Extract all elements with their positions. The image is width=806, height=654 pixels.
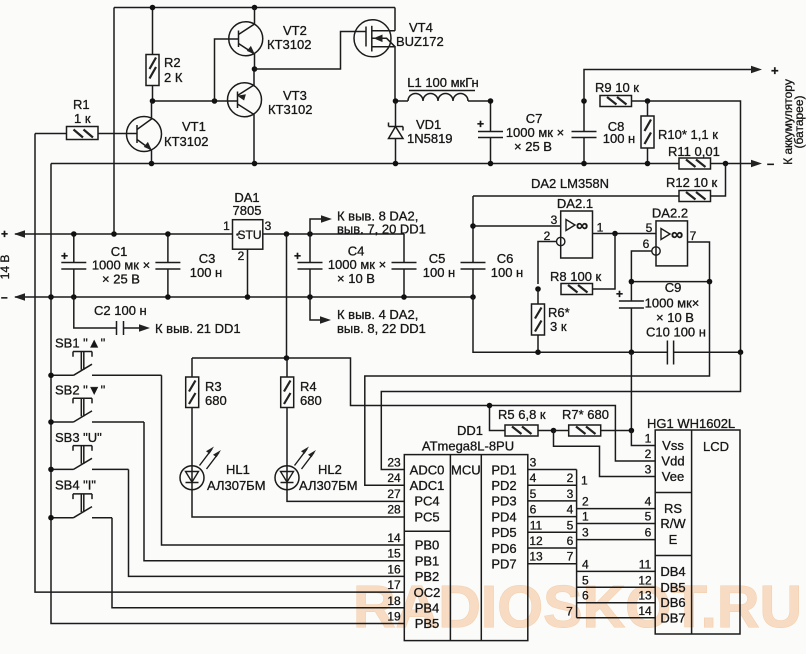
svg-text:28: 28	[387, 503, 401, 517]
diode VD1	[389, 101, 453, 164]
node C8 top	[581, 98, 587, 104]
wire SB2 to PB1	[144, 422, 404, 561]
transistor VT2	[229, 8, 312, 70]
pin number 12	[529, 534, 543, 548]
svg-text:HL2: HL2	[318, 462, 342, 477]
wire bus to E	[577, 539, 656, 541]
svg-text:ADC1: ADC1	[410, 478, 445, 493]
wire PD4 stub	[528, 516, 577, 518]
pin number 17	[387, 578, 401, 592]
label DA2	[531, 176, 609, 191]
node C9 bottom	[629, 349, 635, 355]
svg-text:× 10 В: × 10 В	[656, 310, 694, 325]
svg-text:6: 6	[530, 503, 537, 517]
bus wire number 5 left	[567, 518, 574, 532]
wire bus to DB6	[577, 602, 656, 604]
pin number 28	[387, 503, 401, 517]
node C6 bottom ground	[470, 294, 476, 300]
svg-text:R7* 680: R7* 680	[562, 407, 609, 422]
pin number 6 HG1	[645, 526, 652, 540]
node C1 top	[71, 231, 77, 237]
wire gate link	[255, 32, 367, 70]
bus wire number 5 right	[582, 573, 589, 587]
svg-text:STU: STU	[238, 228, 262, 242]
capacitor C7	[477, 101, 564, 164]
svg-text:12: 12	[529, 534, 543, 548]
bus wire number 1 right	[582, 510, 589, 524]
svg-text:PB0: PB0	[415, 538, 440, 553]
wire HL2 to PC4	[287, 490, 404, 502]
node C4 top	[307, 231, 313, 237]
svg-text:DA2 LM358N: DA2 LM358N	[531, 176, 609, 191]
svg-text:SB3 "U": SB3 "U"	[55, 430, 102, 445]
resistor R5	[498, 407, 554, 436]
svg-text:5: 5	[567, 518, 574, 532]
svg-text:HG1 WH1602L: HG1 WH1602L	[647, 416, 735, 431]
wire ADC1 long wire from DA2.2 output	[365, 282, 710, 486]
svg-text:1: 1	[645, 432, 652, 446]
svg-text:PB1: PB1	[415, 553, 440, 568]
node C1 bottom	[71, 294, 77, 300]
svg-text:1: 1	[597, 221, 604, 235]
svg-text:C10 100 н: C10 100 н	[646, 325, 706, 340]
svg-text:5: 5	[645, 510, 652, 524]
node sense line bottom	[738, 349, 744, 355]
svg-text:SB1 "▲": SB1 "▲"	[55, 336, 106, 351]
svg-text:+: +	[616, 287, 623, 301]
node LED rail supply	[284, 355, 290, 361]
svg-text:SB4 "I": SB4 "I"	[55, 478, 96, 493]
wire left vertical from top rail to +14V rail	[113, 8, 115, 235]
pin number 11	[530, 518, 543, 532]
svg-text:+: +	[1, 227, 8, 241]
resistor R10	[641, 101, 718, 164]
node base junction	[212, 98, 218, 104]
svg-text:VT3: VT3	[283, 88, 307, 103]
node C3 top	[165, 231, 171, 237]
bus wire number 6 left	[567, 534, 574, 548]
svg-text:1000 мк ×: 1000 мк ×	[328, 257, 386, 272]
svg-text:3: 3	[551, 213, 558, 227]
label plus input	[1, 227, 8, 241]
wire bottom common of top section	[51, 163, 679, 165]
node C7 top	[488, 98, 494, 104]
svg-text:C7: C7	[526, 111, 543, 126]
node VT1 emitter	[149, 161, 155, 167]
node VT2 collector top	[252, 5, 258, 11]
svg-text:выв. 8, 22 DD1: выв. 8, 22 DD1	[337, 321, 426, 336]
svg-text:R6*: R6*	[548, 305, 570, 320]
resistor R11	[668, 144, 720, 169]
svg-text:11: 11	[639, 557, 652, 571]
svg-text:C6: C6	[497, 251, 514, 266]
pin number 14 HG1	[638, 604, 652, 618]
svg-text:4: 4	[567, 503, 574, 517]
bus wire number 7 right	[566, 605, 573, 619]
capacitor C5	[392, 234, 456, 297]
svg-text:2: 2	[582, 495, 589, 509]
svg-text:АЛ307БМ: АЛ307БМ	[299, 478, 358, 493]
svg-text:PD7: PD7	[491, 557, 516, 572]
svg-text:LCD: LCD	[703, 439, 729, 454]
label minus output	[767, 156, 774, 171]
pin number 14	[387, 531, 401, 545]
svg-text:2 К: 2 К	[164, 70, 183, 85]
svg-text:16: 16	[387, 562, 401, 576]
bus wire number 3 right	[582, 526, 589, 540]
wire branch to pin8 DA2	[310, 215, 332, 234]
pin number 11 HG1	[639, 557, 652, 571]
svg-text:3: 3	[582, 526, 589, 540]
svg-text:14: 14	[387, 531, 401, 545]
button SB4	[51, 478, 112, 518]
bus wire number 2 left	[567, 471, 574, 485]
node R7 right junction	[629, 428, 635, 434]
svg-text:SB2 "▼": SB2 "▼"	[55, 383, 106, 398]
pin number 6	[530, 503, 537, 517]
wire base bus y=101	[153, 100, 238, 102]
wire +5 to LED rail	[286, 234, 288, 358]
svg-text:5: 5	[646, 221, 653, 235]
svg-text:6: 6	[643, 237, 650, 251]
svg-text:R3: R3	[205, 379, 222, 394]
svg-text:19: 19	[387, 610, 401, 624]
node C4 bottom	[307, 294, 313, 300]
svg-text:2: 2	[544, 229, 551, 243]
pin number 24	[387, 471, 401, 485]
svg-text:27: 27	[387, 487, 401, 501]
wire bus to DB7	[577, 617, 656, 619]
node L1/VD1	[393, 98, 399, 104]
svg-text:3: 3	[645, 463, 652, 477]
svg-text:HL1: HL1	[226, 462, 250, 477]
pin number 16	[387, 562, 401, 576]
svg-text:PC4: PC4	[414, 494, 439, 509]
wire PD7 stub	[528, 563, 577, 565]
svg-text:15: 15	[387, 547, 401, 561]
svg-text:L1 100 мкГн: L1 100 мкГн	[407, 75, 479, 90]
svg-text:R10* 1,1 к: R10* 1,1 к	[658, 127, 718, 142]
capacitor C9	[616, 280, 706, 352]
node VT2 emitter / VT3 / gate wire	[252, 66, 258, 72]
svg-text:7: 7	[566, 605, 573, 619]
svg-text:C3: C3	[199, 251, 216, 266]
node SB2 common	[48, 419, 54, 425]
node VT3 lower terminal	[252, 161, 258, 167]
wire LED top rail	[192, 358, 655, 461]
svg-text:VT1: VT1	[182, 119, 206, 134]
wire PD2 stub	[528, 484, 577, 486]
transistor VT4 MOSFET	[354, 8, 444, 102]
wire R5 feed	[490, 406, 506, 431]
svg-text:BUZ172: BUZ172	[396, 34, 444, 49]
IC DD1 ATmega8L	[404, 423, 528, 641]
svg-text:680: 680	[205, 393, 227, 408]
svg-text:7805: 7805	[233, 203, 262, 218]
svg-text:100 н: 100 н	[491, 265, 523, 280]
svg-text:7: 7	[690, 229, 697, 243]
svg-text:К выв. 4 DA2,: К выв. 4 DA2,	[337, 307, 418, 322]
node SB3 common	[48, 467, 54, 473]
svg-text:КТ3102: КТ3102	[267, 37, 311, 52]
node VD1 bottom	[393, 161, 399, 167]
wire bus to DB4	[577, 570, 656, 572]
svg-text:OC2: OC2	[414, 585, 441, 600]
svg-text:R9 10 к: R9 10 к	[595, 80, 639, 95]
svg-text:выв. 7, 20 DD1: выв. 7, 20 DD1	[337, 222, 426, 237]
wire battery plus branch	[584, 66, 762, 101]
svg-text:R8 100 к: R8 100 к	[550, 269, 602, 284]
svg-text:RS: RS	[664, 501, 682, 516]
svg-text:23: 23	[387, 456, 401, 470]
capacitor C8	[572, 101, 636, 164]
node R10 bottom	[645, 161, 651, 167]
wire SB4 to PB4	[112, 518, 404, 608]
wire ADC0 long wire from sense divider	[381, 352, 740, 469]
button SB1	[51, 336, 162, 376]
pin number 18	[387, 594, 401, 608]
label to pin8 DA2	[337, 209, 426, 237]
wire C9 top	[631, 281, 709, 283]
svg-text:DB4: DB4	[660, 564, 685, 579]
svg-text:(батарее): (батарее)	[792, 95, 806, 148]
node R6 bottom	[535, 349, 541, 355]
node C9 top left	[629, 279, 635, 285]
svg-text:× 25 В: × 25 В	[514, 139, 552, 154]
svg-text:PC5: PC5	[414, 509, 439, 524]
svg-text:14: 14	[638, 604, 652, 618]
LED HL2	[275, 447, 358, 494]
svg-text:–: –	[767, 156, 774, 171]
pin number 5 HG1	[645, 510, 652, 524]
svg-text:PD5: PD5	[491, 525, 516, 540]
svg-text:DA2.1: DA2.1	[557, 196, 593, 211]
svg-text:17: 17	[387, 578, 401, 592]
node DA2.2 out junction	[707, 279, 713, 285]
pin number 13 HG1	[638, 589, 652, 603]
node R5 feed tap	[487, 403, 493, 409]
node +5 rail x286.5	[284, 231, 290, 237]
svg-text:VD1: VD1	[416, 117, 441, 132]
pin number 3 HG1	[645, 463, 652, 477]
svg-text:2: 2	[238, 249, 245, 263]
bus wire number 4 left	[567, 503, 574, 517]
svg-text:PB2: PB2	[415, 569, 440, 584]
node R8 left / R6 top	[535, 286, 541, 292]
wire R1 left vertical to pin 17	[35, 134, 404, 593]
svg-text:6: 6	[645, 526, 652, 540]
transistor VT1	[98, 101, 208, 164]
op-amp DA2.2	[631, 206, 709, 282]
resistor R1	[35, 97, 98, 140]
resistor R4	[281, 358, 322, 466]
resistor R9	[595, 80, 648, 107]
svg-text:R12 10 к: R12 10 к	[666, 175, 718, 190]
svg-text:3: 3	[530, 456, 537, 470]
label 14V	[0, 255, 12, 280]
capacitor C10	[667, 341, 673, 365]
svg-text:АЛ307БМ: АЛ307БМ	[207, 478, 266, 493]
pin number 13	[529, 550, 543, 564]
watermark RADIOSKOT.RU	[353, 574, 802, 640]
svg-text:6: 6	[582, 589, 589, 603]
wire bus to RS	[577, 508, 656, 510]
pin number 5	[530, 487, 537, 501]
node C8 bottom	[581, 161, 587, 167]
svg-text:C5: C5	[429, 251, 446, 266]
label minus input	[1, 290, 8, 304]
wire PD5 stub	[528, 531, 577, 533]
pin number 4	[530, 471, 537, 485]
wire +5V rail	[263, 233, 404, 235]
svg-text:1: 1	[223, 219, 230, 233]
svg-text:С2 100 н: С2 100 н	[94, 303, 147, 318]
svg-text:Vdd: Vdd	[661, 454, 684, 469]
wire HL1 to PC5	[192, 490, 404, 517]
node C7 bottom	[488, 161, 494, 167]
svg-text:1N5819: 1N5819	[407, 131, 453, 146]
capacitor C4	[294, 234, 386, 297]
node SB1 common	[48, 373, 54, 379]
svg-text:PD4: PD4	[491, 509, 516, 524]
svg-text:1: 1	[582, 510, 589, 524]
svg-text:Vss: Vss	[662, 438, 684, 453]
bus wire number 2 right	[582, 495, 589, 509]
capacitor C3	[155, 234, 222, 297]
button SB2	[51, 383, 144, 423]
svg-text:100 н: 100 н	[603, 131, 635, 146]
svg-text:ATmega8L-8PU: ATmega8L-8PU	[422, 439, 514, 454]
pin number 19	[387, 610, 401, 624]
pin number 27	[387, 487, 401, 501]
transistor VT3	[228, 69, 313, 164]
pin number 12 HG1	[638, 573, 652, 587]
svg-text:R5 6,8 к: R5 6,8 к	[498, 407, 546, 422]
wire PD6 stub	[528, 547, 577, 549]
svg-text:× 10 В: × 10 В	[337, 271, 375, 286]
node SB4 common	[48, 515, 54, 521]
resistor R2	[146, 8, 183, 102]
LCD HG1 WH1602L	[647, 416, 740, 634]
svg-text:7: 7	[567, 550, 574, 564]
svg-text:13: 13	[529, 550, 543, 564]
node DA2.1 output	[612, 231, 618, 237]
svg-text:R/W: R/W	[660, 516, 686, 531]
LED HL1	[180, 447, 266, 494]
wire PD3 stub	[528, 500, 577, 502]
svg-text:12: 12	[638, 573, 652, 587]
svg-text:PB4: PB4	[415, 601, 440, 616]
svg-text:14 В: 14 В	[0, 255, 12, 280]
bus wire number 4 right	[582, 557, 589, 571]
resistor R12	[473, 164, 726, 202]
regulator DA1 7805	[223, 190, 272, 297]
resistor R7	[554, 407, 632, 436]
svg-text:E: E	[669, 532, 678, 547]
svg-text:4: 4	[530, 471, 537, 485]
inductor L1	[395, 75, 491, 101]
svg-text:5: 5	[530, 487, 537, 501]
svg-text:MCU: MCU	[451, 462, 481, 477]
label to battery vertical	[781, 79, 806, 165]
svg-text:PD3: PD3	[491, 494, 516, 509]
pin number 23	[387, 456, 401, 470]
node common at ground rail	[48, 294, 54, 300]
svg-text:C9: C9	[665, 280, 682, 295]
svg-text:+: +	[771, 63, 779, 78]
svg-text:13: 13	[638, 589, 652, 603]
wire PD1 stub	[528, 469, 577, 471]
svg-text:1000 мк ×: 1000 мк ×	[506, 125, 564, 140]
pin number 2 HG1	[645, 447, 652, 461]
bus wire number 7 left	[567, 550, 574, 564]
label to pin 21 DD1	[155, 321, 241, 336]
svg-text:3: 3	[265, 219, 272, 233]
wire SB3 to PB2	[129, 469, 405, 576]
svg-text:5: 5	[582, 573, 589, 587]
svg-text:3 к: 3 к	[550, 319, 567, 334]
capacitor C2	[74, 297, 150, 335]
wire ground drop to analog ground	[473, 297, 741, 352]
svg-text:1000 мк×: 1000 мк×	[645, 296, 700, 311]
svg-text:КТ3102: КТ3102	[268, 102, 312, 117]
node C3 bottom	[165, 294, 171, 300]
svg-text:КТ3102: КТ3102	[164, 134, 208, 149]
wire R7 ground riser	[630, 352, 632, 430]
svg-text:24: 24	[387, 471, 401, 485]
svg-text:PD1: PD1	[491, 462, 516, 477]
svg-text:2: 2	[645, 447, 652, 461]
svg-text:100 н: 100 н	[190, 265, 222, 280]
svg-text:DB7: DB7	[660, 610, 685, 625]
svg-text:PB5: PB5	[415, 616, 440, 631]
capacitor C1	[61, 234, 150, 297]
svg-text:DD1: DD1	[457, 423, 483, 438]
svg-text:4: 4	[582, 557, 589, 571]
label to pin4 DA2	[337, 307, 426, 336]
bus wire number 1	[581, 474, 588, 488]
label plus output	[771, 63, 779, 78]
resistor R3	[186, 358, 227, 466]
wire rail to sense line	[648, 101, 741, 352]
svg-text:100 н: 100 н	[423, 265, 455, 280]
node R10 top	[645, 98, 651, 104]
node R2 bottom / VT1 collector	[150, 98, 156, 104]
svg-text:DB6: DB6	[660, 595, 685, 610]
button SB3	[51, 430, 129, 469]
svg-text:3: 3	[567, 487, 574, 501]
node R2 top	[150, 5, 156, 11]
pin number 3	[530, 456, 537, 470]
resistor R6	[532, 289, 570, 352]
wire to HG1 pin3 Vee	[554, 431, 656, 477]
svg-text:PD6: PD6	[491, 541, 516, 556]
svg-text:+: +	[477, 117, 484, 131]
wire VT2 base riser	[215, 39, 239, 101]
wire bus to RW	[577, 523, 656, 525]
wire bus to DB5	[577, 586, 656, 588]
node R11/R12	[723, 161, 729, 167]
pin number 1 HG1	[645, 432, 652, 446]
capacitor C6	[461, 196, 524, 297]
svg-text:R11 0,01: R11 0,01	[668, 144, 720, 159]
wire minus input rail	[14, 293, 473, 300]
svg-text:DB5: DB5	[660, 580, 685, 595]
wire +14V input rail	[14, 230, 233, 237]
node R5/R7 divider	[551, 428, 557, 434]
node C6 pin3 tap	[470, 223, 476, 229]
svg-text:VT4: VT4	[409, 20, 433, 35]
